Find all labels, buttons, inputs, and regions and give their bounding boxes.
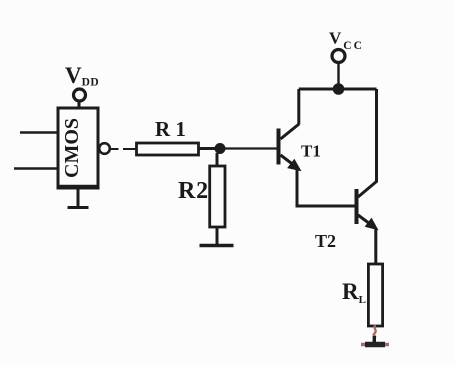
wire node A down to R2 (216, 153, 219, 166)
wire T1 emitter to T2 base (297, 168, 356, 206)
wire RL to output ground (red) (374, 325, 376, 337)
transistor T2 (357, 182, 378, 230)
transistor T1 (279, 124, 301, 171)
wire Vcc terminal to rail (337, 63, 339, 90)
wire T2 emitter to RL (374, 229, 377, 264)
input wire 2 (14, 167, 58, 170)
inverter output bubble (99, 143, 110, 154)
wire R2 to ground (216, 227, 219, 244)
resistor R1 (137, 143, 199, 155)
node A junction dot (215, 143, 226, 154)
power terminal Vcc (332, 50, 345, 63)
svg-text:T1: T1 (301, 142, 321, 161)
svg-text:R2: R2 (178, 178, 209, 204)
svg-text:VCC: VCC (329, 29, 364, 53)
wire segment black above ground (373, 336, 376, 343)
IC U1 CMOS body (58, 108, 98, 188)
ground (R2) (200, 244, 234, 247)
supply rail (299, 88, 377, 91)
IC bottom edge thick stroke (58, 185, 98, 188)
svg-text:R 1: R 1 (155, 117, 186, 141)
wire VDD terminal to CMOS (78, 102, 81, 110)
wire T2 collector to supply rail (375, 89, 378, 183)
ground (output, red smudge) (361, 343, 389, 347)
resistor RL (368, 264, 382, 326)
wire node A to T1 base (225, 147, 277, 149)
junction dot Vcc node (333, 83, 345, 95)
svg-text:CMOS: CMOS (61, 118, 83, 178)
svg-text:T2: T2 (315, 231, 336, 251)
svg-text:RL: RL (342, 279, 366, 306)
input wire 1 (20, 131, 58, 134)
ground (CMOS) (68, 188, 89, 208)
svg-text:VDD: VDD (65, 63, 99, 89)
resistor R2 (210, 166, 225, 227)
wire T1 collector to supply rail (297, 89, 300, 125)
wire bubble to R1 (110, 148, 137, 150)
wire R1 to node A (199, 147, 217, 150)
power terminal VDD (74, 89, 86, 101)
